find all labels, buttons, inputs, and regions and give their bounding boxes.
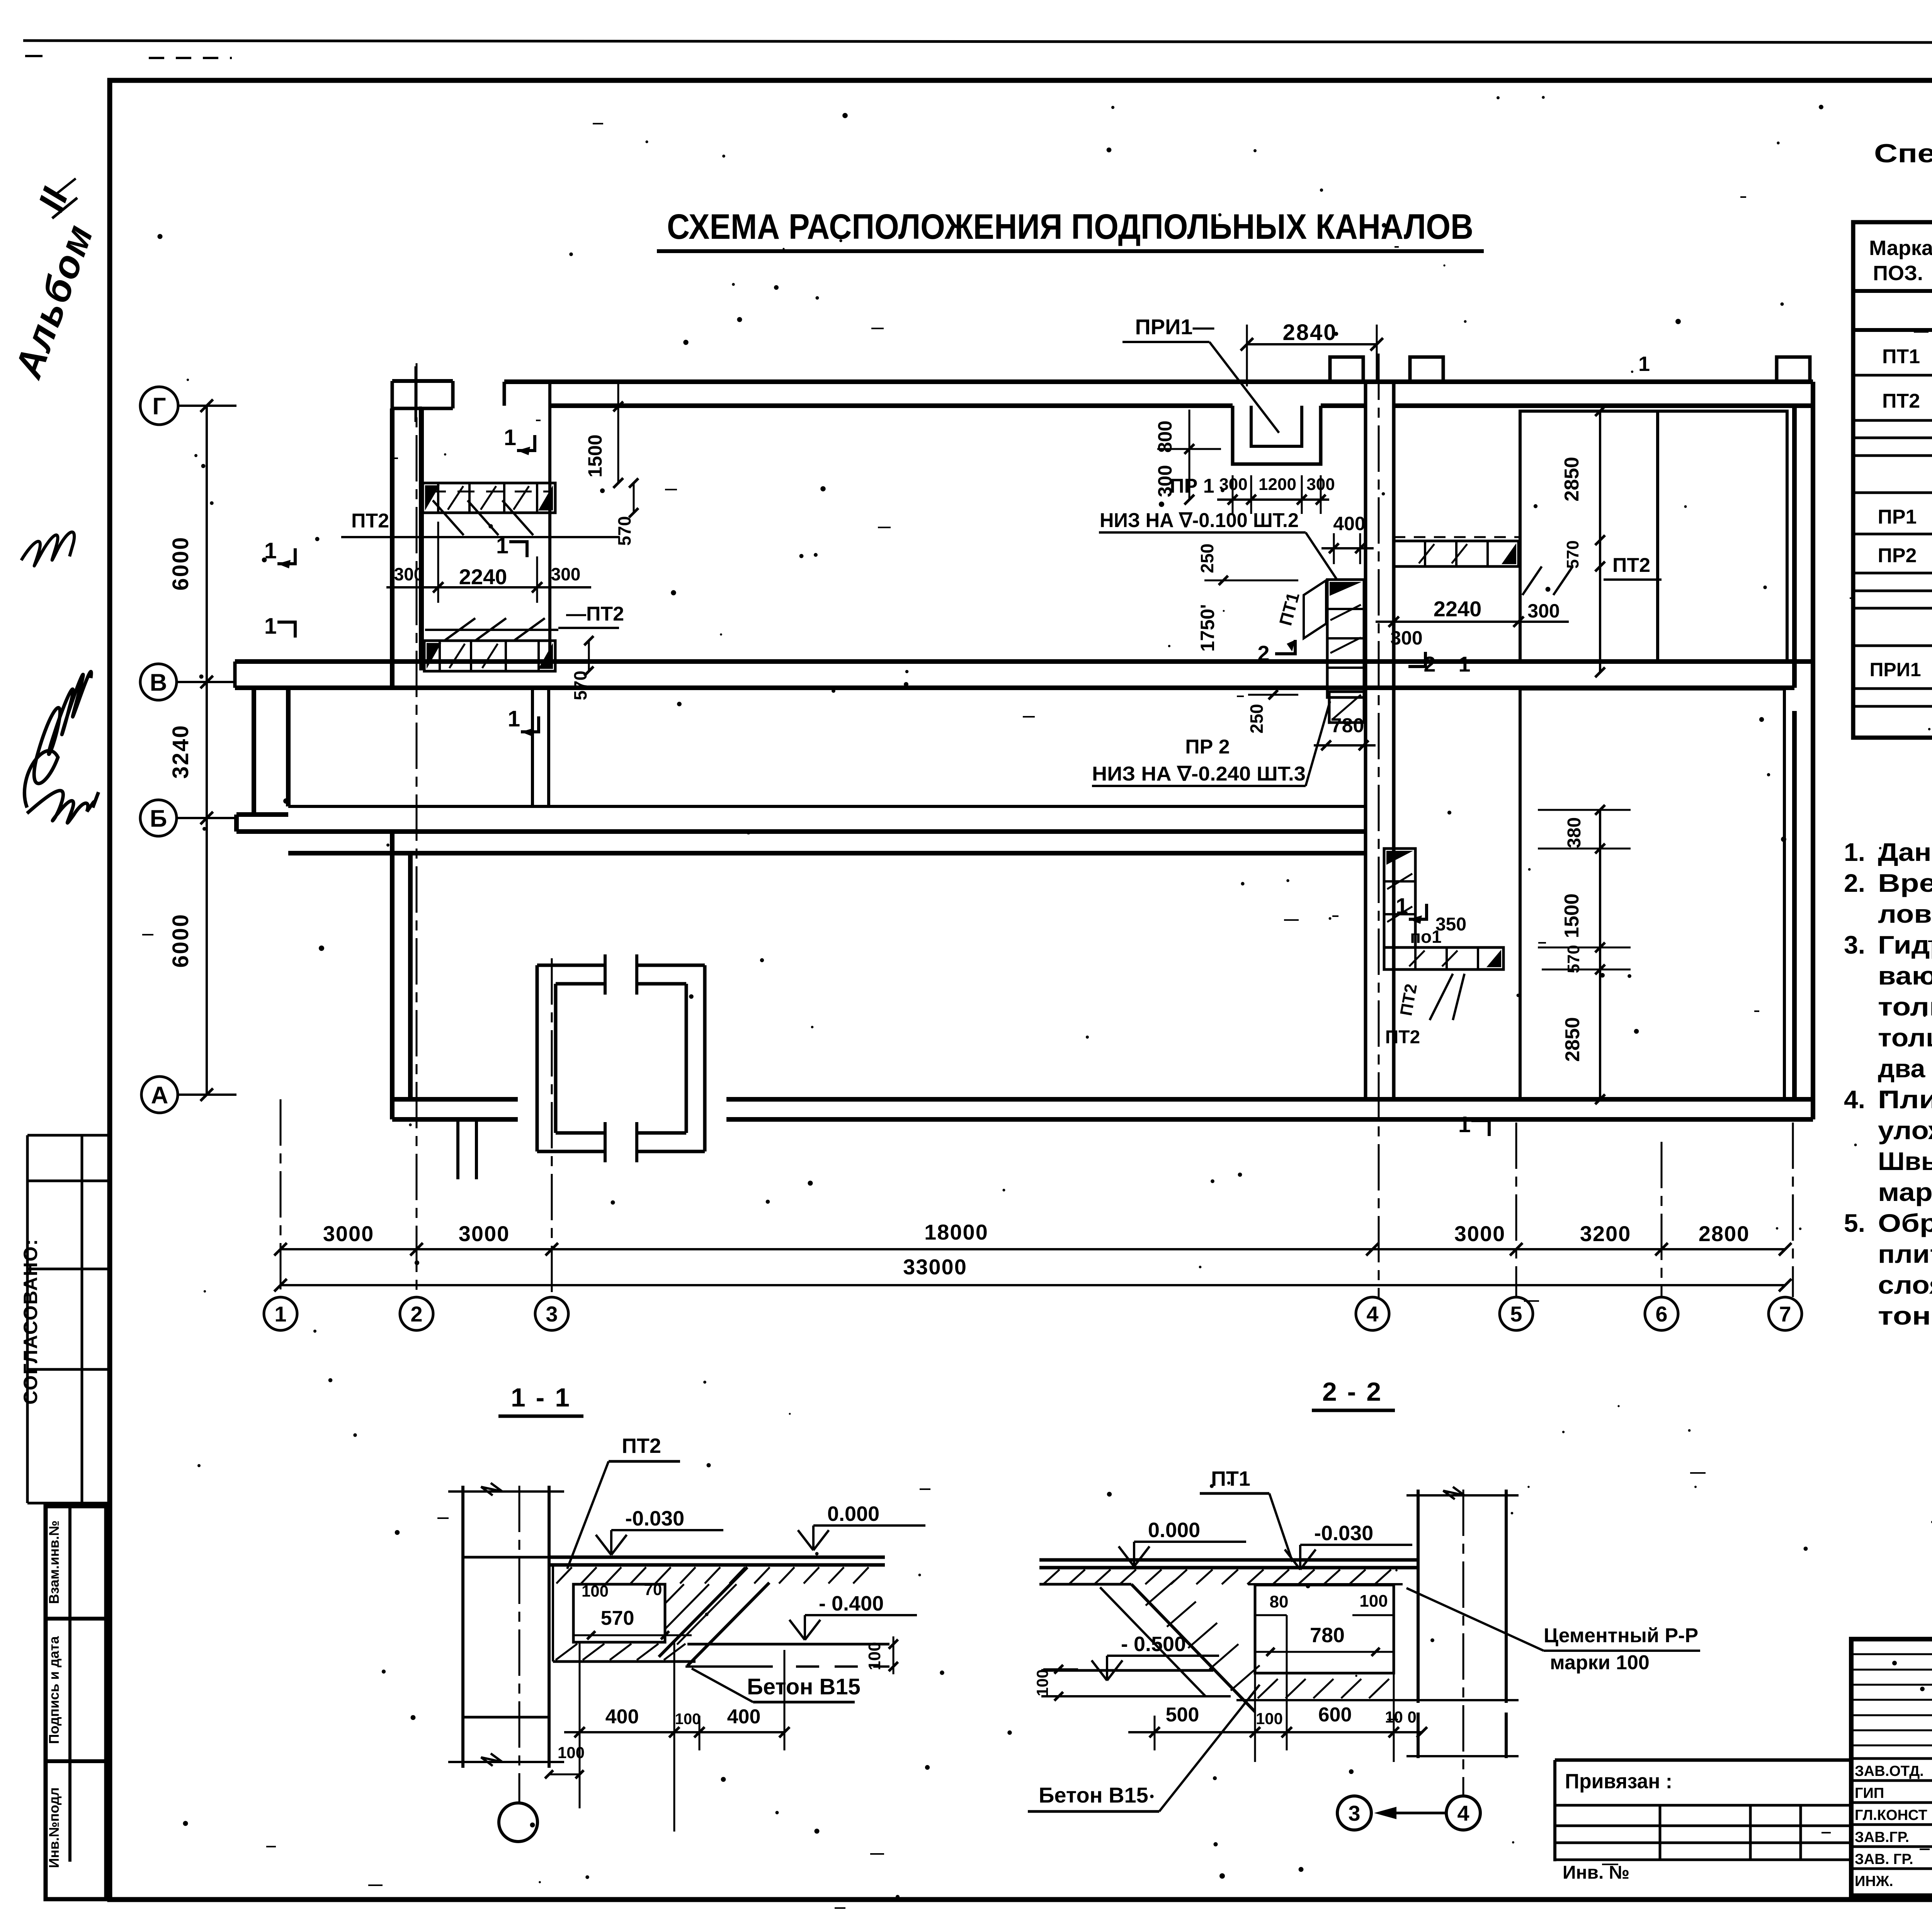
svg-text:70: 70 bbox=[644, 1580, 662, 1599]
svg-text:Марка: Марка bbox=[1869, 236, 1932, 260]
svg-text:1: 1 bbox=[496, 533, 509, 558]
svg-text:ИНЖ.: ИНЖ. bbox=[1855, 1873, 1893, 1889]
svg-text:570: 570 bbox=[614, 516, 634, 546]
svg-text:2.: 2. bbox=[1844, 869, 1865, 897]
svg-text:В: В bbox=[150, 669, 167, 696]
svg-text:100: 100 bbox=[558, 1743, 585, 1762]
svg-text:ПТ2: ПТ2 bbox=[1612, 554, 1650, 577]
bay protrusion walls (В-Б) bbox=[252, 688, 256, 815]
svg-text:два раза поверхностей, сопри: два раза поверхностей, соприкасающихся с… bbox=[1878, 1054, 1932, 1083]
svg-text:ПР2: ПР2 bbox=[1878, 544, 1917, 567]
plate flag ПТ1 parallelogram bbox=[1304, 580, 1326, 638]
svg-text:80: 80 bbox=[1270, 1592, 1289, 1611]
ПРИ1 pit under top wall bbox=[1233, 406, 1321, 464]
svg-text:Г: Г bbox=[152, 393, 166, 420]
svg-text:ПРИ1—: ПРИ1— bbox=[1135, 315, 1214, 339]
svg-text:лов принята 10 кПа.: лов принята 10 кПа. bbox=[1878, 900, 1932, 928]
svg-text:- 0.500: - 0.500 bbox=[1121, 1633, 1186, 1656]
svg-text:1: 1 bbox=[504, 425, 516, 450]
top wall (axis Г) bbox=[504, 379, 1813, 384]
svg-text:800: 800 bbox=[1154, 420, 1176, 452]
svg-text:Инв.№подл: Инв.№подл bbox=[46, 1787, 62, 1868]
svg-text:100: 100 bbox=[582, 1582, 609, 1600]
corridor channel bottom edge bbox=[288, 805, 1366, 808]
axis line 6 bbox=[1661, 1142, 1663, 1297]
right vertical dim chain lower (380/1500/570/2850) bbox=[1599, 810, 1601, 1099]
svg-text:Подпись и дата: Подпись и дата bbox=[46, 1636, 62, 1744]
bottom overall dim 33000 bbox=[281, 1284, 1785, 1286]
svg-text:Плиты перекрытия каналов ук: Плиты перекрытия каналов укладывать на с… bbox=[1878, 1085, 1932, 1114]
right rooms upper rect bbox=[1520, 411, 1787, 662]
svg-text:3200: 3200 bbox=[1580, 1221, 1631, 1246]
svg-text:2840: 2840 bbox=[1282, 320, 1337, 345]
svg-text:1 - 1: 1 - 1 bbox=[511, 1383, 571, 1412]
svg-text:3000: 3000 bbox=[1454, 1221, 1506, 1246]
section 2-2 circles 3 and 4 with arrow bbox=[1337, 1796, 1371, 1830]
section 1-1 cavity bbox=[573, 1584, 665, 1642]
svg-text:Данные о грунтах см. лист: Данные о грунтах см. лист КЖ-4 bbox=[1878, 838, 1932, 866]
svg-text:толщиной 100 мм , стен - обм: толщиной 100 мм , стен - обмазкой горячи… bbox=[1878, 1023, 1932, 1052]
svg-text:А: А bbox=[151, 1082, 168, 1109]
svg-text:1.: 1. bbox=[1844, 838, 1865, 866]
axis line 5 bbox=[1515, 1122, 1517, 1297]
svg-text:3000: 3000 bbox=[459, 1221, 510, 1246]
top wall left corner piece bbox=[392, 379, 453, 383]
section 2-2 hatch wedge bbox=[1146, 1580, 1175, 1605]
svg-text:ПР1: ПР1 bbox=[1878, 506, 1917, 528]
svg-text:ПТ2: ПТ2 bbox=[1882, 390, 1920, 412]
svg-text:- 0.400: - 0.400 bbox=[819, 1592, 884, 1615]
svg-text:780: 780 bbox=[1310, 1624, 1345, 1647]
svg-text:ПРИ1: ПРИ1 bbox=[1869, 659, 1921, 680]
svg-text:1750': 1750' bbox=[1197, 604, 1218, 651]
svg-text:по1: по1 bbox=[1410, 927, 1441, 947]
svg-text:100: 100 bbox=[1033, 1669, 1051, 1696]
svg-text:Обратную засыпку траншей пр: Обратную засыпку траншей производить пос… bbox=[1878, 1209, 1932, 1237]
svg-text:слоями с уплотнением с обеи: слоями с уплотнением с обеих сторон кана… bbox=[1878, 1270, 1932, 1299]
svg-text:уложенного цементного раство: уложенного цементного раствора марки 50 … bbox=[1878, 1116, 1932, 1145]
svg-text:570: 570 bbox=[601, 1607, 634, 1629]
L-channel vertical strip bbox=[1384, 849, 1415, 947]
svg-text:Инв. №: Инв. № bbox=[1563, 1862, 1629, 1883]
sheet frame bbox=[23, 41, 1932, 43]
svg-text:4: 4 bbox=[1366, 1302, 1378, 1326]
section 1-1 left column bbox=[461, 1486, 464, 1768]
svg-text:Гидроизоляцию каналов выполн: Гидроизоляцию каналов выполнять под днищ… bbox=[1878, 930, 1932, 959]
scan noise specks bbox=[1777, 141, 1779, 144]
svg-text:1500: 1500 bbox=[1561, 893, 1583, 938]
svg-text:780: 780 bbox=[1331, 714, 1364, 737]
svg-text:СХЕМА РАСПОЛОЖЕНИЯ ПОДПОЛЬНЫ: СХЕМА РАСПОЛОЖЕНИЯ ПОДПОЛЬНЫХ КАНАЛОВ bbox=[667, 207, 1473, 247]
section 2-2 plates hatched strip bbox=[1248, 1583, 1403, 1585]
left wall bbox=[390, 408, 395, 689]
section 1-1 axis circle bbox=[499, 1803, 537, 1842]
svg-text:2 - 2: 2 - 2 bbox=[1322, 1377, 1383, 1406]
svg-text:Бетон В15: Бетон В15 bbox=[1039, 1783, 1148, 1807]
svg-text:ЗАВ. ГР.: ЗАВ. ГР. bbox=[1855, 1851, 1913, 1867]
svg-text:1: 1 bbox=[1638, 352, 1650, 376]
svg-text:3000: 3000 bbox=[323, 1221, 374, 1246]
title block signature rows bbox=[1851, 1757, 1932, 1760]
svg-text:2850: 2850 bbox=[1561, 1017, 1584, 1062]
svg-text:500: 500 bbox=[1166, 1704, 1199, 1726]
svg-text:—ПТ2: —ПТ2 bbox=[566, 603, 624, 625]
svg-text:100: 100 bbox=[675, 1711, 701, 1728]
svg-text:ПР 2: ПР 2 bbox=[1185, 736, 1230, 758]
svg-text:-0.030: -0.030 bbox=[625, 1507, 684, 1530]
bottom-left stamp table bbox=[46, 1506, 106, 1899]
svg-text:ГИП: ГИП bbox=[1855, 1785, 1884, 1801]
svg-text:300: 300 bbox=[1390, 627, 1422, 649]
spec table grid bbox=[1853, 222, 1932, 738]
section 1-1 left hatched wall bbox=[553, 1565, 573, 1662]
left margin signature scribble bbox=[24, 672, 91, 808]
svg-text:ПТ2: ПТ2 bbox=[1385, 1027, 1420, 1048]
привязан table bbox=[1555, 1759, 1851, 1762]
section 2-2 hatch under slab bbox=[1043, 1570, 1060, 1584]
svg-text:ПТ2: ПТ2 bbox=[622, 1434, 661, 1458]
axis line 1 bbox=[280, 1099, 282, 1297]
svg-text:1200: 1200 bbox=[1259, 475, 1296, 494]
axis circle В bbox=[140, 664, 177, 700]
wall on axis В bbox=[235, 659, 1813, 664]
svg-text:ПТ1: ПТ1 bbox=[1211, 1467, 1250, 1490]
svg-text:5: 5 bbox=[1510, 1302, 1522, 1326]
svg-text:марки 50.: марки 50. bbox=[1878, 1178, 1932, 1206]
plate strip dashed edge right-top bbox=[1394, 536, 1519, 538]
axis line 3 bbox=[551, 958, 553, 1297]
svg-text:0.000: 0.000 bbox=[827, 1502, 879, 1526]
svg-text:4.: 4. bbox=[1844, 1085, 1865, 1114]
svg-text:ПОЗ.: ПОЗ. bbox=[1873, 262, 1923, 285]
right rooms lower rect bbox=[1520, 689, 1784, 1099]
svg-text:300: 300 bbox=[394, 564, 424, 584]
axis circle Б bbox=[140, 800, 177, 836]
plate strip ПТ2 upper (axis2 channel) bbox=[429, 491, 549, 493]
svg-text:Цементный Р-Р: Цементный Р-Р bbox=[1544, 1624, 1698, 1647]
section 2-2 slab bbox=[1039, 1558, 1418, 1562]
svg-text:18000: 18000 bbox=[924, 1220, 988, 1244]
section 1-1 slab bbox=[549, 1556, 885, 1559]
wall on axis Б bbox=[236, 829, 1366, 834]
svg-text:250: 250 bbox=[1247, 704, 1267, 734]
svg-text:600: 600 bbox=[1318, 1704, 1352, 1726]
axis circle Г bbox=[140, 387, 178, 425]
svg-text:1: 1 bbox=[508, 706, 520, 731]
svg-text:3: 3 bbox=[546, 1302, 558, 1326]
plate strip ПТ2 right-top bbox=[1394, 541, 1519, 566]
svg-text:2800: 2800 bbox=[1699, 1221, 1750, 1246]
svg-text:ЗАВ.ГР.: ЗАВ.ГР. bbox=[1855, 1829, 1909, 1845]
svg-text:НИЗ НА ∇-0.100 ШТ.2: НИЗ НА ∇-0.100 ШТ.2 bbox=[1100, 509, 1299, 532]
svg-text:570: 570 bbox=[570, 671, 590, 701]
svg-text:300: 300 bbox=[551, 564, 581, 584]
svg-text:1: 1 bbox=[274, 1302, 286, 1326]
svg-text:33000: 33000 bbox=[903, 1255, 967, 1279]
svg-text:1: 1 bbox=[264, 614, 277, 639]
svg-text:7: 7 bbox=[1779, 1302, 1791, 1326]
svg-text:1: 1 bbox=[1458, 1112, 1471, 1137]
bottom axis circles bbox=[264, 1297, 297, 1330]
title block frame bbox=[1851, 1639, 1932, 1896]
svg-text:250: 250 bbox=[1197, 544, 1217, 573]
right wall (axis 7) bbox=[1792, 406, 1797, 688]
svg-text:2850: 2850 bbox=[1561, 457, 1583, 502]
channel walls on axis 2 bbox=[419, 406, 422, 662]
svg-text:6000: 6000 bbox=[168, 913, 193, 968]
section 1-1 hatch under slab bbox=[556, 1567, 572, 1583]
svg-text:3: 3 bbox=[1348, 1801, 1360, 1825]
svg-text:Б: Б bbox=[150, 805, 167, 832]
plate strip ПТ2 lower (axis2 channel) bbox=[431, 662, 549, 664]
section 1-1 wedge hatch bbox=[665, 1584, 709, 1629]
svg-text:НИЗ НА ∇-0.240 ШТ.3: НИЗ НА ∇-0.240 ШТ.3 bbox=[1092, 763, 1306, 785]
svg-text:400: 400 bbox=[1333, 513, 1365, 534]
svg-text:400: 400 bbox=[727, 1706, 761, 1728]
svg-text:плит перекрытий каналов и т: плит перекрытий каналов и тоннелей равно… bbox=[1878, 1240, 1932, 1268]
section 2-2 left floor -0.500 and ramp bbox=[1039, 1583, 1131, 1586]
svg-text:100: 100 bbox=[1256, 1709, 1283, 1728]
svg-text:Бетон В15: Бетон В15 bbox=[747, 1674, 861, 1699]
top wall pilasters bbox=[1330, 357, 1363, 382]
svg-text:6000: 6000 bbox=[168, 536, 193, 590]
stub below А wall bbox=[456, 1119, 459, 1179]
bottom dim line segments bbox=[281, 1248, 1785, 1250]
svg-text:Взам.инв.№: Взам.инв.№ bbox=[46, 1520, 62, 1604]
title block upper-left thin rows bbox=[1851, 1653, 1932, 1655]
svg-text:2: 2 bbox=[1257, 641, 1269, 665]
ПТ1 plates in axis4 channel bbox=[1327, 580, 1364, 697]
svg-text:570: 570 bbox=[1564, 945, 1583, 973]
svg-text:СОГЛАСОВАНО:: СОГЛАСОВАНО: bbox=[20, 1238, 41, 1405]
svg-text:ПР 1: ПР 1 bbox=[1170, 475, 1214, 497]
svg-text:100: 100 bbox=[865, 1642, 884, 1670]
axis line 7 bbox=[1792, 1122, 1794, 1297]
svg-text:1: 1 bbox=[1396, 894, 1408, 919]
svg-text:100: 100 bbox=[1359, 1592, 1388, 1611]
svg-text:Спецификация элементов к мар: Спецификация элементов к маркировочной с… bbox=[1874, 139, 1932, 168]
section 1-1 ramp to lower floor bbox=[659, 1567, 747, 1657]
svg-text:3240: 3240 bbox=[168, 724, 193, 779]
svg-text:-0.030: -0.030 bbox=[1314, 1522, 1373, 1545]
corridor divider stub bbox=[531, 688, 534, 806]
svg-text:6: 6 bbox=[1655, 1302, 1667, 1326]
svg-text:1500: 1500 bbox=[584, 434, 606, 477]
svg-text:3.: 3. bbox=[1844, 930, 1865, 959]
svg-text:2240: 2240 bbox=[1434, 597, 1482, 621]
svg-text:ПТ1: ПТ1 bbox=[1882, 345, 1920, 368]
svg-text:10 0: 10 0 bbox=[1385, 1708, 1417, 1726]
C-shape channel piece right bbox=[703, 965, 707, 1151]
section 2-2 cavity bbox=[1255, 1585, 1394, 1673]
right vertical dim chain upper (2850/570) bbox=[1599, 411, 1601, 672]
svg-text:тоннеля в соответствии со: тоннеля в соответствии со СНиП 3.02.01- … bbox=[1878, 1301, 1932, 1330]
svg-text:марки 100: марки 100 bbox=[1550, 1651, 1650, 1674]
svg-text:Швы между плитами заполнить: Швы между плитами заполнить цементным ра… bbox=[1878, 1147, 1932, 1175]
bottom wall (axis А) bbox=[392, 1097, 518, 1102]
svg-text:0.000: 0.000 bbox=[1148, 1519, 1200, 1542]
svg-text:Привязан :: Привязан : bbox=[1565, 1770, 1672, 1793]
channel walls on axis 4 bbox=[1364, 382, 1367, 1099]
svg-text:ПТ2: ПТ2 bbox=[351, 510, 389, 532]
L-channel horizontal strip bbox=[1384, 947, 1503, 969]
left vertical dimension chain bbox=[206, 406, 208, 1095]
СОГЛАСОВАНО table bbox=[27, 1134, 109, 1137]
svg-text:ГЛ.КОНСТ: ГЛ.КОНСТ bbox=[1855, 1807, 1927, 1823]
svg-text:400: 400 bbox=[605, 1706, 639, 1728]
small hatched piece below В wall bbox=[1329, 692, 1364, 723]
axis circle А bbox=[141, 1077, 178, 1113]
dim 1500 (left channel) bbox=[617, 382, 619, 483]
section 2-2 right column bbox=[1417, 1490, 1420, 1703]
svg-text:570: 570 bbox=[1563, 540, 1582, 568]
section 2-2 bottom hatched floor bbox=[1255, 1672, 1394, 1675]
axis line 2 bbox=[416, 363, 418, 1297]
svg-text:5.: 5. bbox=[1844, 1209, 1865, 1237]
svg-text:4: 4 bbox=[1457, 1801, 1469, 1825]
C-shape channel piece left (bottom centre) bbox=[536, 965, 539, 1151]
svg-text:2240: 2240 bbox=[459, 565, 507, 589]
svg-text:вающий слой из цементного: вающий слой из цементного раствора марки… bbox=[1878, 961, 1932, 990]
svg-text:380: 380 bbox=[1564, 817, 1585, 848]
svg-text:300: 300 bbox=[1527, 600, 1560, 622]
svg-text:Временная нормативная нагруз: Временная нормативная нагрузка на перекр… bbox=[1878, 869, 1932, 897]
svg-text:1: 1 bbox=[1458, 652, 1470, 676]
svg-text:2: 2 bbox=[410, 1302, 422, 1326]
axis line 4 bbox=[1378, 354, 1380, 1297]
svg-text:ЗАВ.ОТД.: ЗАВ.ОТД. bbox=[1855, 1763, 1924, 1779]
